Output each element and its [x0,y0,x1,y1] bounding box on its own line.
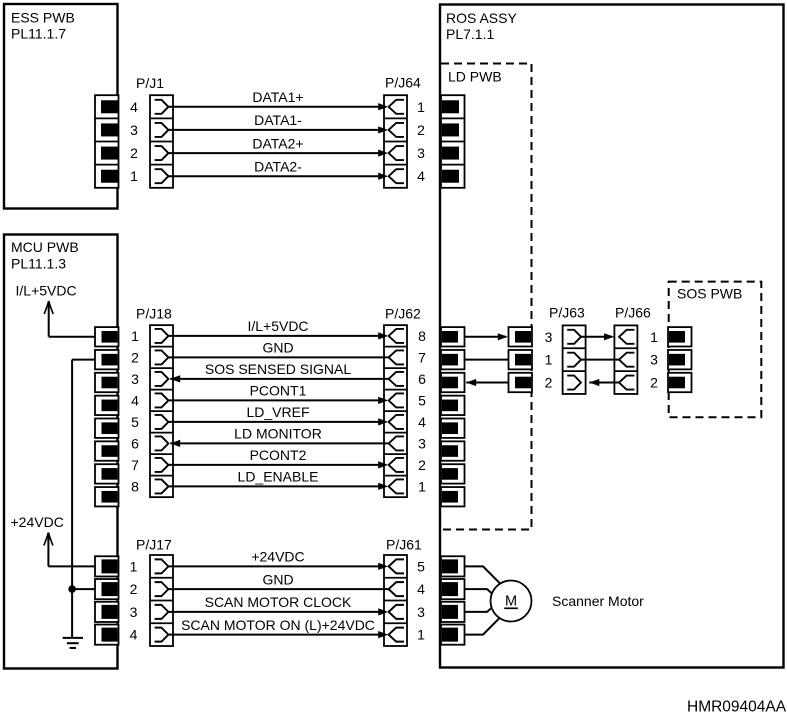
svg-text:P/J61: P/J61 [386,537,422,553]
svg-text:4: 4 [130,99,138,115]
svg-text:PCONT2: PCONT2 [250,447,307,463]
svg-text:LD MONITOR: LD MONITOR [234,426,322,442]
svg-text:1: 1 [545,352,553,368]
svg-text:4: 4 [418,414,426,430]
svg-text:3: 3 [131,371,139,387]
svg-text:DATA2-: DATA2- [254,158,302,174]
svg-text:4: 4 [131,392,139,408]
svg-text:5: 5 [131,414,139,430]
svg-text:I/L+5VDC: I/L+5VDC [247,318,308,334]
svg-text:2: 2 [650,375,658,391]
svg-text:SCAN MOTOR ON (L)+24VDC: SCAN MOTOR ON (L)+24VDC [181,617,375,633]
svg-text:1: 1 [417,627,425,643]
svg-text:2: 2 [130,145,138,161]
svg-text:+24VDC: +24VDC [11,514,64,530]
svg-text:8: 8 [418,328,426,344]
svg-text:LD PWB: LD PWB [448,69,502,85]
svg-text:P/J17: P/J17 [136,537,172,553]
svg-text:MCU PWB: MCU PWB [11,239,79,255]
svg-text:P/J63: P/J63 [549,305,585,321]
svg-text:1: 1 [130,558,138,574]
svg-text:1: 1 [131,328,139,344]
svg-text:8: 8 [131,478,139,494]
svg-text:3: 3 [417,604,425,620]
svg-text:3: 3 [545,329,553,345]
svg-text:DATA1+: DATA1+ [252,89,303,105]
svg-text:5: 5 [418,392,426,408]
svg-text:4: 4 [130,627,138,643]
svg-text:LD_ENABLE: LD_ENABLE [238,469,319,485]
svg-text:4: 4 [417,168,425,184]
svg-text:7: 7 [131,457,139,473]
svg-text:PL11.1.7: PL11.1.7 [11,26,66,42]
svg-text:P/J66: P/J66 [615,305,651,321]
svg-text:ROS ASSY: ROS ASSY [446,10,517,26]
svg-text:+24VDC: +24VDC [251,549,304,565]
svg-text:HMR09404AA: HMR09404AA [687,699,787,716]
svg-text:1: 1 [417,99,425,115]
svg-text:PL7.1.1: PL7.1.1 [446,26,494,42]
svg-text:I/L+5VDC: I/L+5VDC [16,283,77,299]
svg-text:P/J64: P/J64 [385,75,421,91]
svg-text:SOS PWB: SOS PWB [677,286,742,302]
svg-text:PL11.1.3: PL11.1.3 [11,256,66,272]
svg-text:2: 2 [130,581,138,597]
svg-text:2: 2 [418,457,426,473]
svg-text:1: 1 [650,329,658,345]
svg-text:2: 2 [131,349,139,365]
svg-text:6: 6 [131,435,139,451]
svg-text:5: 5 [417,558,425,574]
svg-text:3: 3 [130,122,138,138]
svg-text:P/J18: P/J18 [136,306,172,322]
svg-text:Scanner Motor: Scanner Motor [552,593,644,609]
svg-text:SOS SENSED SIGNAL: SOS SENSED SIGNAL [205,361,351,377]
svg-text:3: 3 [130,604,138,620]
svg-text:1: 1 [130,168,138,184]
svg-text:P/J1: P/J1 [136,75,164,91]
svg-text:3: 3 [418,435,426,451]
svg-text:2: 2 [545,375,553,391]
svg-text:2: 2 [417,122,425,138]
svg-text:DATA2+: DATA2+ [252,135,303,151]
svg-text:7: 7 [418,349,426,365]
svg-text:1: 1 [418,478,426,494]
svg-text:GND: GND [262,571,293,587]
svg-text:6: 6 [418,371,426,387]
svg-text:PCONT1: PCONT1 [250,383,307,399]
svg-text:4: 4 [417,581,425,597]
svg-text:LD_VREF: LD_VREF [246,404,309,420]
svg-text:3: 3 [417,145,425,161]
svg-text:DATA1-: DATA1- [254,112,302,128]
svg-text:GND: GND [262,340,293,356]
svg-text:SCAN MOTOR CLOCK: SCAN MOTOR CLOCK [205,594,352,610]
svg-text:ESS PWB: ESS PWB [11,10,75,26]
svg-text:P/J62: P/J62 [385,306,421,322]
svg-text:M: M [505,594,517,610]
svg-text:3: 3 [650,352,658,368]
